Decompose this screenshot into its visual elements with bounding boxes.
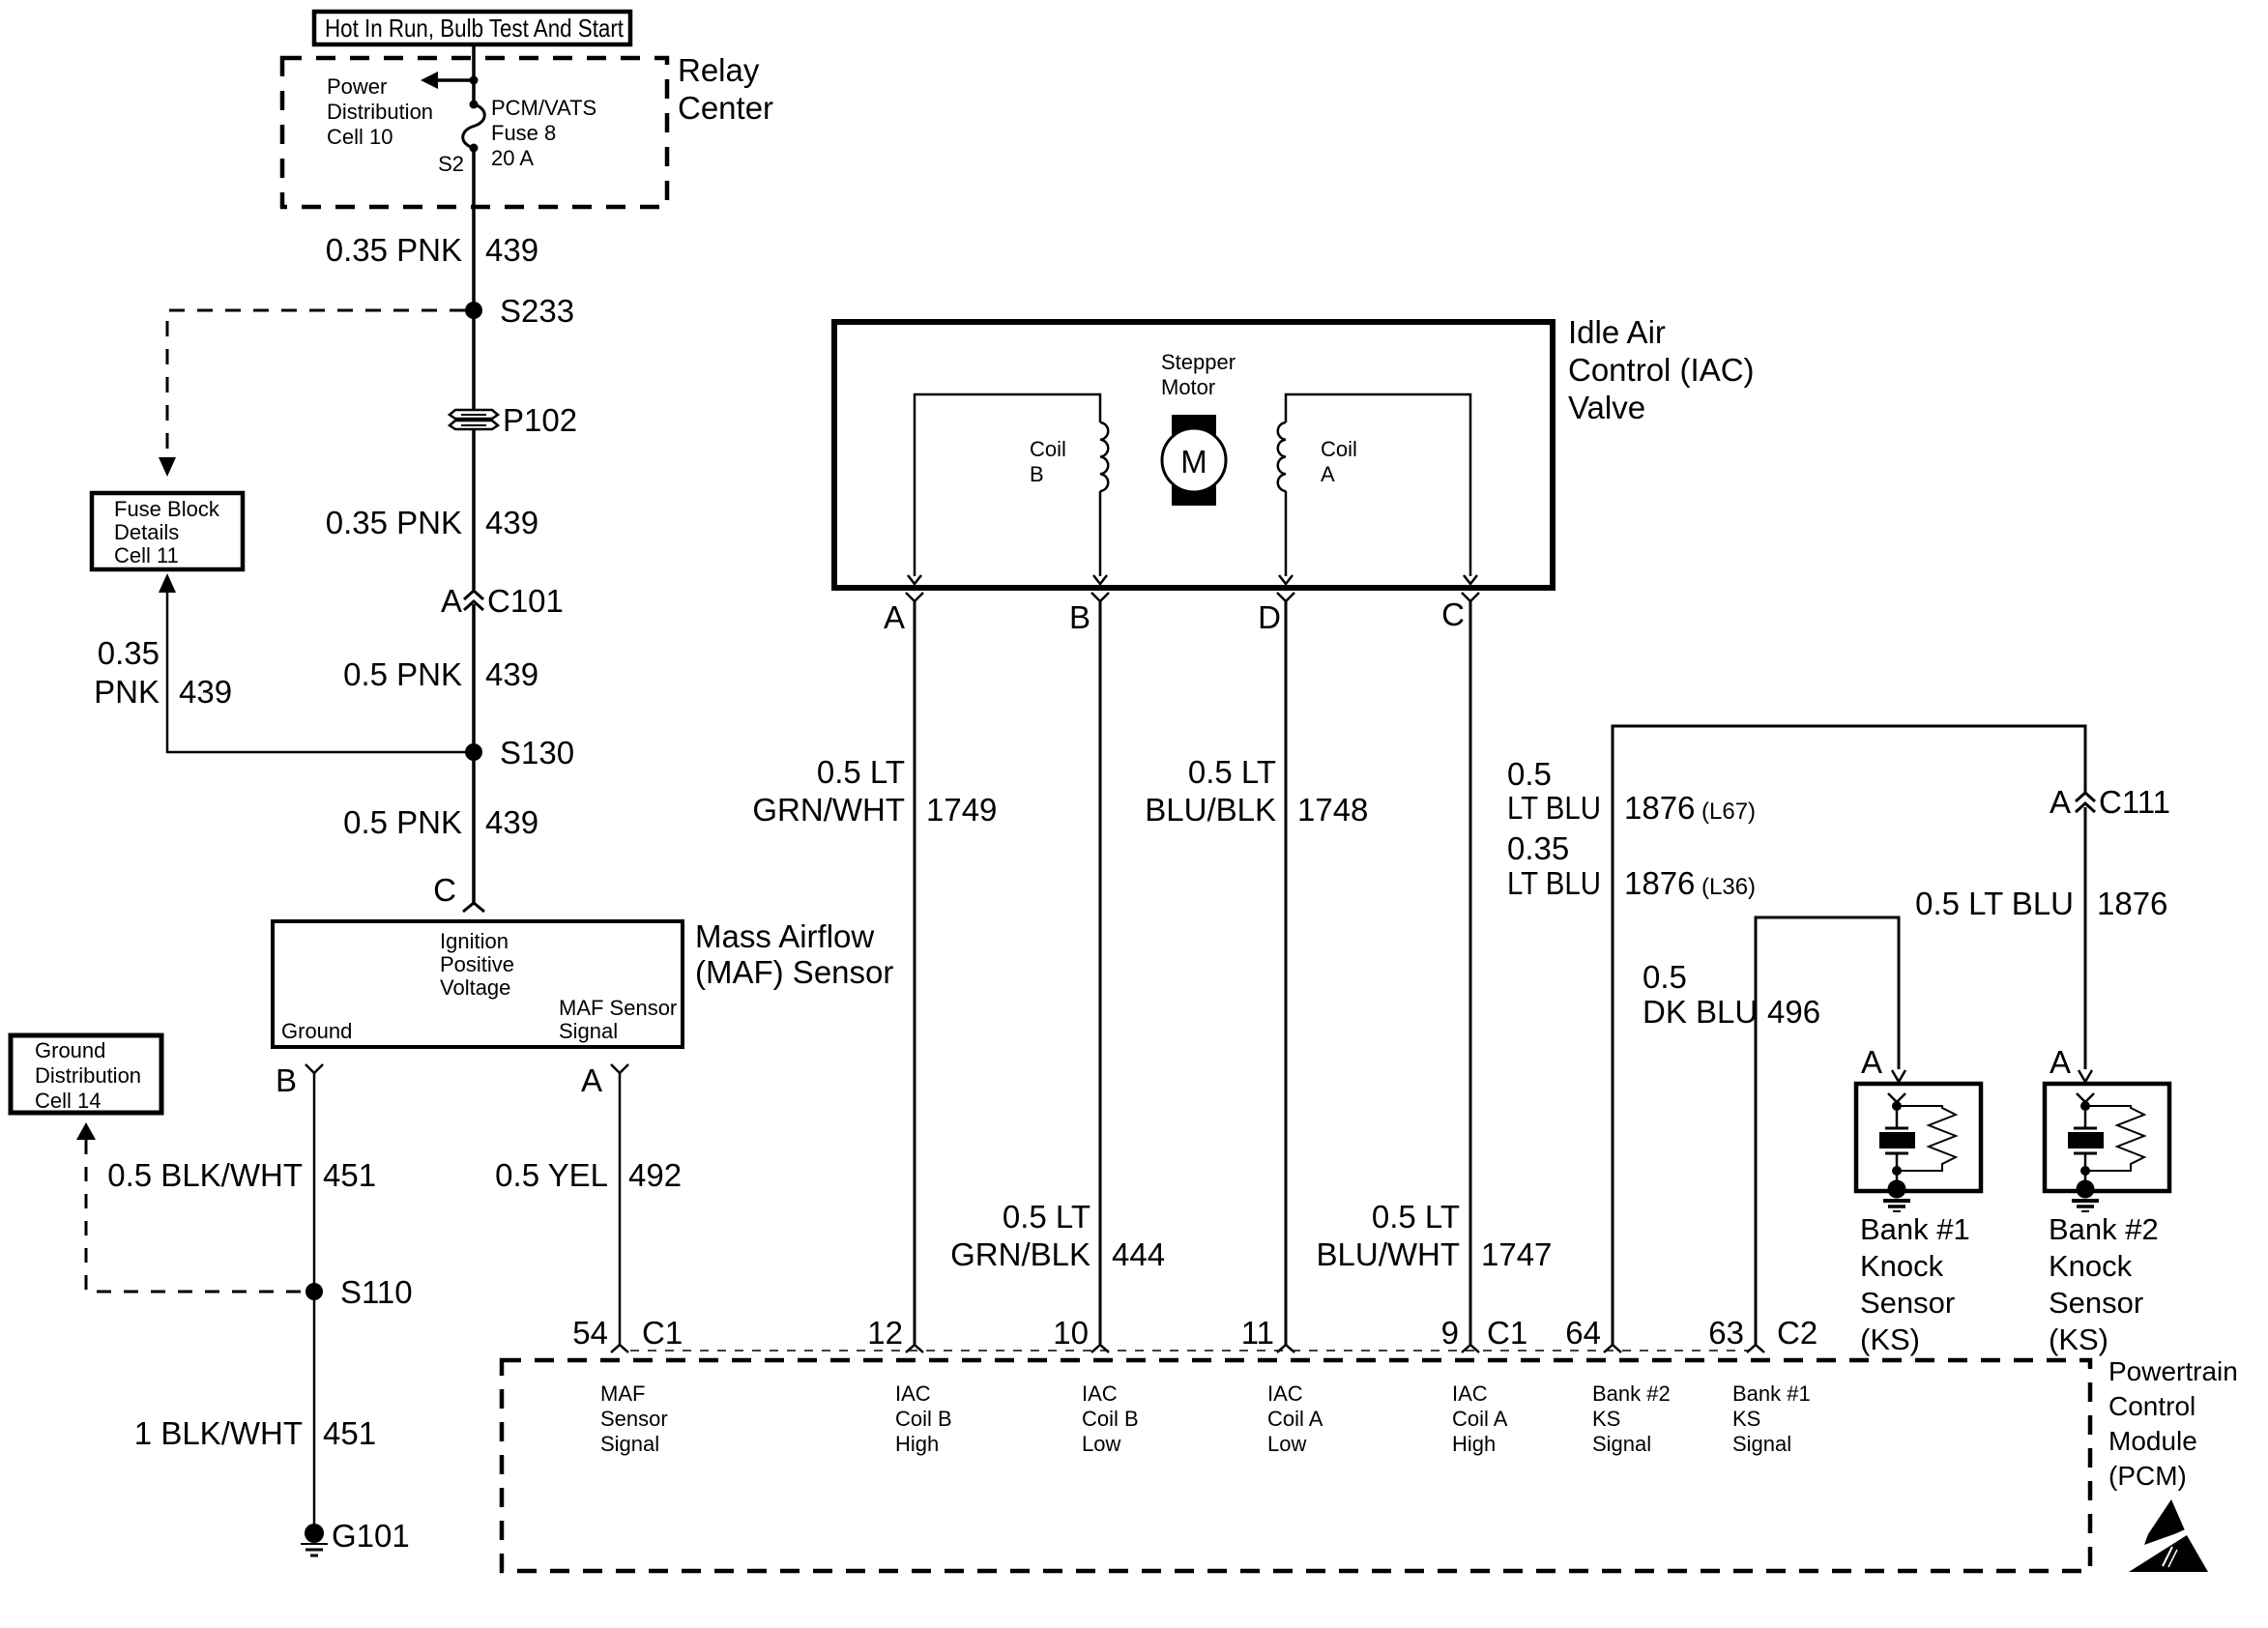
svg-text:G101: G101 xyxy=(332,1518,410,1554)
PCM pin 11 xyxy=(1241,1315,1294,1352)
label PCM/VATS Fuse 8 20 A xyxy=(491,96,596,170)
svg-text:9: 9 xyxy=(1441,1315,1459,1351)
svg-text:0.5 LT: 0.5 LT xyxy=(1003,1199,1090,1235)
svg-text:Stepper: Stepper xyxy=(1161,350,1236,374)
svg-text:54: 54 xyxy=(572,1315,608,1351)
label 0.5 BLK/WHT 451 xyxy=(107,1157,376,1193)
svg-text:63: 63 xyxy=(1708,1315,1744,1351)
svg-text:Powertrain: Powertrain xyxy=(2108,1356,2238,1386)
svg-text:MAF Sensor: MAF Sensor xyxy=(559,996,677,1020)
svg-text:Fuse 8: Fuse 8 xyxy=(491,121,556,145)
svg-text:B: B xyxy=(1030,462,1044,486)
svg-text:0.5 YEL: 0.5 YEL xyxy=(495,1157,608,1193)
svg-text:Coil: Coil xyxy=(1030,437,1066,461)
svg-text:496: 496 xyxy=(1767,994,1820,1030)
wire PNK 439 S233 to P102 to C101 xyxy=(472,310,476,410)
label 0.5 DK BLU 496 xyxy=(1643,959,1820,1030)
PCM internal label IAC Coil B Low xyxy=(1082,1381,1139,1456)
svg-text:Coil A: Coil A xyxy=(1452,1407,1508,1431)
svg-text:A: A xyxy=(441,583,462,619)
label Stepper Motor xyxy=(1161,350,1236,399)
svg-text:439: 439 xyxy=(485,804,538,840)
arrow to Power Distribution Cell 10 xyxy=(421,72,474,89)
svg-text:D: D xyxy=(1258,599,1281,635)
svg-text:Voltage: Voltage xyxy=(440,975,510,1000)
PCM pin 12 xyxy=(867,1315,923,1352)
svg-text:MAF: MAF xyxy=(600,1381,645,1406)
svg-text:1876: 1876 xyxy=(1624,865,1695,901)
svg-text:Low: Low xyxy=(1267,1432,1306,1456)
wire from Hot box into relay center to fuse xyxy=(472,44,476,103)
svg-text:451: 451 xyxy=(323,1157,376,1193)
svg-text:Cell 11: Cell 11 xyxy=(114,543,179,567)
svg-text:Sensor: Sensor xyxy=(600,1407,668,1431)
svg-text:GRN/WHT: GRN/WHT xyxy=(752,792,905,828)
svg-text:C1: C1 xyxy=(1487,1315,1527,1351)
wire LT BLU/BLK 1748 IAC D to PCM 11 xyxy=(1285,601,1288,1345)
svg-text:0.35 PNK: 0.35 PNK xyxy=(326,505,462,540)
PCM internal label IAC Coil A Low xyxy=(1267,1381,1323,1456)
svg-text:Signal: Signal xyxy=(1592,1432,1651,1456)
svg-text:M: M xyxy=(1180,444,1207,480)
svg-text:A: A xyxy=(884,599,905,635)
Bank #1 knock sensor KS box xyxy=(1856,1084,1981,1191)
svg-text:0.5 BLK/WHT: 0.5 BLK/WHT xyxy=(107,1157,303,1193)
wire LT BLU 1876 PCM 64 to C111 to Bank #2 knock sensor xyxy=(1613,726,2092,1345)
label 0.5 LT GRN/BLK 444 xyxy=(950,1199,1165,1272)
svg-text:PNK: PNK xyxy=(94,674,160,710)
svg-text:PCM/VATS: PCM/VATS xyxy=(491,96,596,120)
svg-text:GRN/BLK: GRN/BLK xyxy=(950,1236,1090,1272)
svg-text:0.5 PNK: 0.5 PNK xyxy=(343,656,462,692)
svg-text:Ground: Ground xyxy=(35,1038,105,1062)
svg-text:Valve: Valve xyxy=(1568,390,1645,425)
svg-text:Signal: Signal xyxy=(559,1019,618,1043)
label 0.35 PNK 439 xyxy=(326,505,538,540)
svg-text:Details: Details xyxy=(114,520,179,544)
svg-text:C101: C101 xyxy=(487,583,564,619)
dashed reference wire S110 to Ground Distribution xyxy=(76,1122,305,1292)
svg-text:S233: S233 xyxy=(500,293,574,329)
svg-text:0.5 LT BLU: 0.5 LT BLU xyxy=(1915,886,2074,921)
svg-text:High: High xyxy=(1452,1432,1496,1456)
svg-text:(MAF) Sensor: (MAF) Sensor xyxy=(695,954,893,990)
svg-text:1 BLK/WHT: 1 BLK/WHT xyxy=(134,1415,303,1451)
svg-text:Fuse Block: Fuse Block xyxy=(114,497,220,521)
IAC pin D xyxy=(1258,593,1294,635)
svg-text:20 A: 20 A xyxy=(491,146,534,170)
IAC pin B xyxy=(1069,593,1109,635)
svg-text:0.5: 0.5 xyxy=(1643,959,1687,995)
svg-text:P102: P102 xyxy=(503,402,577,438)
svg-text:(L36): (L36) xyxy=(1701,874,1756,900)
PCM pin 54 C1 xyxy=(572,1315,683,1352)
label 0.5 LT BLU 1876 (L67) xyxy=(1507,756,1756,826)
svg-text:Coil B: Coil B xyxy=(1082,1407,1139,1431)
svg-text:Bank #1: Bank #1 xyxy=(1732,1381,1811,1406)
svg-text:0.5: 0.5 xyxy=(1507,756,1552,792)
wire LT GRN/WHT 1749 IAC A to PCM 12 xyxy=(914,601,916,1345)
svg-text:Cell 14: Cell 14 xyxy=(35,1089,101,1113)
svg-text:Coil: Coil xyxy=(1321,437,1357,461)
svg-text:C111: C111 xyxy=(2099,784,2170,820)
svg-text:Mass Airflow: Mass Airflow xyxy=(695,918,874,954)
svg-text:0.5 LT: 0.5 LT xyxy=(817,754,905,790)
svg-text:IAC: IAC xyxy=(895,1381,931,1406)
wire LT BLU/WHT 1747 IAC C to PCM 9 xyxy=(1469,601,1472,1345)
svg-text:LT BLU: LT BLU xyxy=(1507,790,1601,826)
svg-text:S2: S2 xyxy=(438,152,464,176)
svg-text:0.35: 0.35 xyxy=(1507,830,1569,866)
label Coil B xyxy=(1030,437,1066,486)
svg-text:Ground: Ground xyxy=(281,1019,352,1043)
svg-text:C: C xyxy=(1441,596,1465,632)
PCM pin 9 C1 xyxy=(1441,1315,1528,1352)
svg-text:12: 12 xyxy=(867,1315,903,1351)
Bank #1 KS pin chevron xyxy=(1888,1093,1905,1102)
svg-text:1876: 1876 xyxy=(2097,886,2167,921)
Mass Airflow (MAF) Sensor box xyxy=(273,921,683,1047)
connector C111 pin A xyxy=(2050,784,2170,820)
label Relay Center xyxy=(678,52,773,126)
label Power Distribution Cell 10 xyxy=(327,74,433,149)
PCM connector row thin dashed line xyxy=(630,1350,1748,1352)
svg-text:439: 439 xyxy=(485,505,538,540)
svg-text:(L67): (L67) xyxy=(1701,799,1756,825)
svg-text:A: A xyxy=(581,1062,602,1098)
svg-text:Center: Center xyxy=(678,90,773,126)
svg-text:0.5 PNK: 0.5 PNK xyxy=(343,804,462,840)
svg-text:LT BLU: LT BLU xyxy=(1507,865,1601,901)
svg-text:S110: S110 xyxy=(340,1274,413,1310)
svg-text:C: C xyxy=(433,872,456,908)
svg-text:Control (IAC): Control (IAC) xyxy=(1568,352,1755,388)
MAF pin A xyxy=(581,1062,628,1098)
svg-text:S130: S130 xyxy=(500,735,574,770)
PCM pin 10 xyxy=(1053,1315,1109,1352)
label 0.5 LT BLU/BLK 1748 xyxy=(1145,754,1368,828)
svg-text:Idle Air: Idle Air xyxy=(1568,314,1666,350)
svg-text:439: 439 xyxy=(485,232,538,268)
Bank #1 KS resistor xyxy=(1897,1106,1956,1171)
IAC coil A winding xyxy=(1278,394,1477,584)
svg-text:B: B xyxy=(276,1062,297,1098)
svg-text:A: A xyxy=(2050,784,2071,820)
svg-text:DK BLU: DK BLU xyxy=(1643,994,1758,1030)
svg-text:1749: 1749 xyxy=(926,792,997,828)
label 0.5 LT GRN/WHT 1749 xyxy=(752,754,997,828)
svg-text:B: B xyxy=(1069,599,1090,635)
svg-text:1747: 1747 xyxy=(1481,1236,1552,1272)
Bank #2 KS pin chevron xyxy=(2077,1093,2094,1102)
svg-text:Relay: Relay xyxy=(678,52,760,88)
ESD sensitive device symbol xyxy=(2123,1499,2208,1572)
connector P102 pass-through grommet xyxy=(450,402,577,438)
fuse F8 PCM/VATS 20A xyxy=(463,101,485,153)
svg-text:451: 451 xyxy=(323,1415,376,1451)
label Bank #1 Knock Sensor (KS) xyxy=(1860,1212,1970,1356)
label 0.5 LT BLU/WHT 1747 xyxy=(1317,1199,1553,1272)
PCM internal label Bank #2 KS Signal xyxy=(1592,1381,1671,1456)
wire YEL 492 MAF A to PCM pin 54 xyxy=(619,1073,622,1345)
svg-text:BLU/BLK: BLU/BLK xyxy=(1145,792,1276,828)
svg-text:IAC: IAC xyxy=(1082,1381,1118,1406)
connector pin C at MAF sensor xyxy=(433,872,484,912)
svg-text:C2: C2 xyxy=(1777,1315,1817,1351)
IAC pin A xyxy=(884,593,923,635)
svg-text:Knock: Knock xyxy=(1860,1249,1944,1283)
IAC pin C xyxy=(1441,593,1479,632)
svg-text:Distribution: Distribution xyxy=(35,1063,141,1088)
svg-text:0.35: 0.35 xyxy=(98,635,160,671)
splice S233 xyxy=(465,293,574,329)
label 0.5 PNK 439 xyxy=(343,804,538,840)
svg-text:A: A xyxy=(2050,1044,2071,1080)
Idle Air Control (IAC) Valve box xyxy=(834,322,1553,588)
Relay Center dashed box xyxy=(282,58,667,207)
svg-text:High: High xyxy=(895,1432,939,1456)
Bank #1 KS internal ground xyxy=(1883,1180,1910,1212)
svg-text:Hot In Run, Bulb Test And Star: Hot In Run, Bulb Test And Start xyxy=(325,14,625,43)
Bank #2 KS internal ground xyxy=(2072,1180,2099,1212)
svg-text:Bank #2: Bank #2 xyxy=(1592,1381,1671,1406)
label 0.35 LT BLU 1876 (L36) xyxy=(1507,830,1756,901)
label Bank #2 Knock Sensor (KS) xyxy=(2049,1212,2159,1356)
svg-text:0.5 LT: 0.5 LT xyxy=(1188,754,1276,790)
splice S130 xyxy=(465,735,574,770)
svg-text:Control: Control xyxy=(2108,1391,2195,1421)
label 0.5 YEL 492 xyxy=(495,1157,682,1193)
stepper motor M xyxy=(1162,415,1226,506)
svg-text:BLU/WHT: BLU/WHT xyxy=(1317,1236,1461,1272)
Powertrain Control Module PCM dashed box xyxy=(502,1360,2090,1571)
svg-text:Signal: Signal xyxy=(1732,1432,1791,1456)
wire PNK 439 S130 to MAF connector C xyxy=(472,752,476,903)
PCM internal label IAC Coil B High xyxy=(895,1381,952,1456)
svg-text:Knock: Knock xyxy=(2049,1249,2133,1283)
svg-text:444: 444 xyxy=(1112,1236,1165,1272)
svg-text:1876: 1876 xyxy=(1624,790,1695,826)
svg-text:A: A xyxy=(1861,1044,1882,1080)
wire PNK 439 fuse to S233 xyxy=(472,148,476,310)
svg-text:Motor: Motor xyxy=(1161,375,1215,399)
PCM internal label IAC Coil A High xyxy=(1452,1381,1508,1456)
label 1 BLK/WHT 451 xyxy=(134,1415,376,1451)
wire LT GRN/BLK 444 IAC B to PCM 10 xyxy=(1099,601,1102,1345)
svg-text:Bank #1: Bank #1 xyxy=(1860,1212,1970,1246)
PCM internal label Bank #1 KS Signal xyxy=(1732,1381,1811,1456)
wire PNK 439 C101 to S130 xyxy=(472,604,476,752)
svg-text:Sensor: Sensor xyxy=(2049,1286,2143,1320)
svg-text:10: 10 xyxy=(1053,1315,1089,1351)
label Coil A xyxy=(1321,437,1357,486)
splice S110 xyxy=(305,1274,413,1310)
power feed box "Hot In Run, Bulb Test And Start" xyxy=(314,12,630,44)
svg-text:439: 439 xyxy=(485,656,538,692)
svg-text:Coil A: Coil A xyxy=(1267,1407,1323,1431)
dashed reference wire from S233 to Fuse Block Details xyxy=(159,310,465,477)
Bank #1 KS piezo element xyxy=(1879,1101,1915,1185)
svg-text:IAC: IAC xyxy=(1267,1381,1303,1406)
svg-text:A: A xyxy=(1321,462,1335,486)
IAC coil B winding xyxy=(908,394,1108,584)
svg-text:Sensor: Sensor xyxy=(1860,1286,1955,1320)
svg-text:IAC: IAC xyxy=(1452,1381,1488,1406)
svg-text:1748: 1748 xyxy=(1297,792,1368,828)
PCM pin 64 xyxy=(1565,1315,1621,1352)
PCM internal label MAF Sensor Signal xyxy=(600,1381,668,1456)
svg-text:Module: Module xyxy=(2108,1426,2197,1456)
Fuse Block Details Cell 11 box xyxy=(92,493,243,569)
label 0.5 PNK 439 xyxy=(343,656,538,692)
svg-text:Low: Low xyxy=(1082,1432,1120,1456)
svg-text:(KS): (KS) xyxy=(1860,1323,1920,1356)
svg-text:439: 439 xyxy=(179,674,232,710)
label 0.5 LT BLU 1876 xyxy=(1915,886,2167,921)
label Idle Air Control (IAC) Valve xyxy=(1568,314,1755,425)
svg-text:64: 64 xyxy=(1565,1315,1601,1351)
wire BLK/WHT 451 MAF B to S110 to G101 xyxy=(313,1073,316,1525)
Ground Distribution Cell 14 box xyxy=(11,1035,161,1113)
Bank #2 knock sensor KS box xyxy=(2045,1084,2169,1191)
svg-text:0.5 LT: 0.5 LT xyxy=(1372,1199,1460,1235)
label 0.35 PNK 439 xyxy=(326,232,538,268)
label 0.35 PNK 439 (branch) xyxy=(94,635,232,710)
svg-text:492: 492 xyxy=(628,1157,682,1193)
MAF pin B xyxy=(276,1062,323,1098)
svg-text:Signal: Signal xyxy=(600,1432,659,1456)
wire DK BLU 496 PCM 63 to Bank #1 knock sensor xyxy=(1756,917,1905,1345)
svg-text:Cell 10: Cell 10 xyxy=(327,125,393,149)
svg-text:Coil B: Coil B xyxy=(895,1407,952,1431)
svg-text:(KS): (KS) xyxy=(2049,1323,2108,1356)
svg-text:Distribution: Distribution xyxy=(327,100,433,124)
PCM pin 63 C2 xyxy=(1708,1315,1817,1352)
svg-text:C1: C1 xyxy=(642,1315,683,1351)
svg-text:Ignition: Ignition xyxy=(440,929,509,953)
svg-text:Bank #2: Bank #2 xyxy=(2049,1212,2159,1246)
label Mass Airflow (MAF) Sensor xyxy=(695,918,893,990)
svg-text:KS: KS xyxy=(1732,1407,1760,1431)
svg-text:(PCM): (PCM) xyxy=(2108,1461,2187,1491)
connector C101 pin A xyxy=(441,583,564,619)
branch wire S130 to Fuse Block Details (PNK 439) xyxy=(159,573,465,752)
Bank #2 KS piezo element xyxy=(2068,1101,2104,1185)
svg-text:0.35 PNK: 0.35 PNK xyxy=(326,232,462,268)
label Powertrain Control Module (PCM) xyxy=(2108,1356,2238,1491)
svg-text:Positive: Positive xyxy=(440,952,514,976)
svg-text:KS: KS xyxy=(1592,1407,1620,1431)
ground G101 xyxy=(301,1518,410,1555)
Bank #2 KS resistor xyxy=(2085,1106,2144,1171)
svg-text:11: 11 xyxy=(1241,1315,1274,1351)
junction dot on wire at arrow xyxy=(470,76,479,85)
svg-text:Power: Power xyxy=(327,74,387,99)
